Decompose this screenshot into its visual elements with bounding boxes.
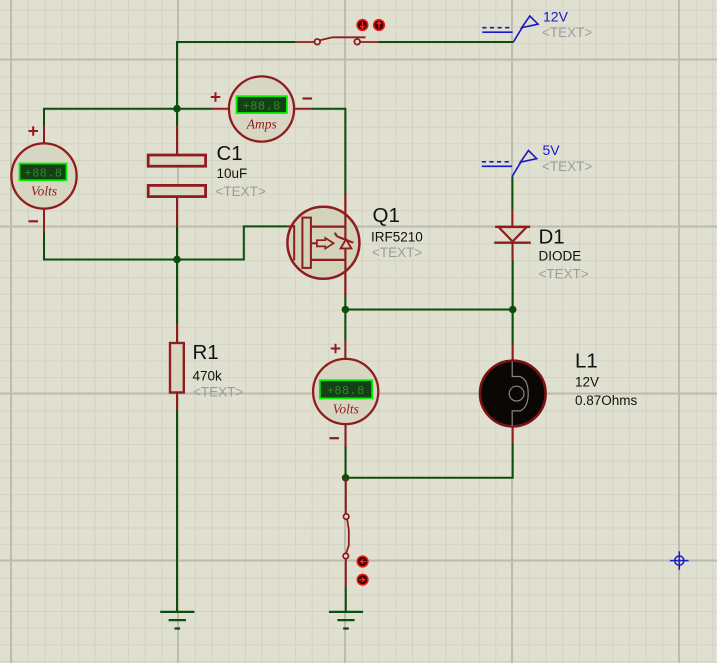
wire node A to voltmeter VM1 plus bbox=[44, 109, 177, 126]
node C junction dot bbox=[342, 306, 350, 314]
power terminal 5V bbox=[482, 151, 537, 177]
transistor Q1 MOSFET bbox=[287, 194, 359, 296]
node E junction dot bbox=[342, 474, 350, 482]
node D junction dot bbox=[509, 306, 517, 314]
wire voltmeter VM2 minus to node E bbox=[345, 446, 347, 478]
wire top rail from node A to switch bbox=[177, 42, 296, 109]
ground left bbox=[160, 612, 194, 629]
voltmeter VM2 bbox=[313, 340, 378, 448]
wire node D to lamp L1 bbox=[512, 310, 514, 344]
wire ammeter minus to MOSFET drain bbox=[312, 109, 345, 195]
switch SW1 toggle down button bbox=[357, 20, 368, 31]
svg-text:+88.8: +88.8 bbox=[327, 384, 365, 398]
svg-text:<TEXT>: <TEXT> bbox=[372, 245, 422, 260]
switch SW1 bbox=[295, 37, 379, 44]
diode D1 bbox=[494, 210, 531, 261]
svg-text:+88.8: +88.8 bbox=[243, 99, 281, 113]
origin marker bbox=[670, 551, 689, 570]
ammeter minus label bbox=[303, 97, 313, 99]
svg-text:0.87Ohms: 0.87Ohms bbox=[575, 393, 638, 408]
ammeter plus label bbox=[211, 92, 221, 101]
node A junction dot bbox=[173, 105, 181, 113]
voltmeter VM1 bbox=[11, 126, 76, 233]
wire node E to lamp bottom bbox=[346, 444, 513, 478]
wire node B to MOSFET gate bbox=[177, 226, 287, 259]
voltmeter VM2 minus label bbox=[330, 437, 340, 439]
svg-text:12V: 12V bbox=[575, 374, 599, 389]
switch SW2 toggle up button bbox=[357, 574, 368, 585]
svg-text:Amps: Amps bbox=[246, 116, 277, 131]
switch SW1 toggle up button bbox=[374, 20, 385, 31]
wire node C to node D bbox=[345, 309, 512, 311]
svg-text:<TEXT>: <TEXT> bbox=[542, 25, 592, 40]
wire R1 to ground bbox=[176, 410, 178, 612]
svg-text:Volts: Volts bbox=[31, 184, 57, 199]
svg-text:<TEXT>: <TEXT> bbox=[193, 384, 243, 399]
switch SW2 bbox=[343, 478, 349, 612]
wire node A to ammeter plus bbox=[177, 108, 212, 110]
svg-text:<TEXT>: <TEXT> bbox=[539, 267, 589, 282]
wire switch to 12V terminal bbox=[379, 41, 514, 43]
svg-text:470k: 470k bbox=[193, 369, 223, 384]
wire node C to voltmeter VM2 plus bbox=[344, 310, 346, 341]
wire MOSFET source to node C bbox=[344, 294, 346, 310]
svg-text:Q1: Q1 bbox=[373, 204, 400, 227]
svg-text:C1: C1 bbox=[217, 142, 243, 165]
svg-text:+88.8: +88.8 bbox=[24, 167, 62, 181]
svg-text:<TEXT>: <TEXT> bbox=[216, 184, 266, 199]
svg-text:L1: L1 bbox=[575, 350, 598, 373]
svg-text:IRF5210: IRF5210 bbox=[371, 230, 423, 245]
capacitor C1 bbox=[148, 109, 205, 226]
wire voltmeter VM1 minus to node B bbox=[44, 232, 177, 259]
wire C1 bottom to node B bbox=[176, 226, 178, 259]
ground right bbox=[329, 612, 363, 629]
wire 5V terminal to D1 anode bbox=[511, 176, 513, 210]
wire D1 cathode to node D bbox=[512, 260, 514, 309]
voltmeter VM2 plus label bbox=[331, 344, 341, 353]
power terminal 12V bbox=[482, 16, 538, 42]
ammeter AM1 bbox=[211, 76, 313, 141]
wire node B down to R1 bbox=[176, 260, 178, 324]
lamp L1 bbox=[480, 343, 546, 444]
svg-text:5V: 5V bbox=[543, 142, 561, 158]
resistor R1 bbox=[170, 323, 184, 411]
svg-text:12V: 12V bbox=[543, 8, 569, 24]
node B junction dot bbox=[173, 256, 181, 264]
svg-text:10uF: 10uF bbox=[217, 166, 248, 181]
svg-text:R1: R1 bbox=[193, 341, 219, 364]
svg-text:Volts: Volts bbox=[333, 401, 359, 416]
svg-text:DIODE: DIODE bbox=[539, 248, 582, 263]
svg-text:<TEXT>: <TEXT> bbox=[542, 159, 592, 174]
voltmeter VM1 minus label bbox=[29, 220, 39, 222]
switch SW2 toggle down button bbox=[357, 556, 368, 567]
voltmeter VM1 plus label bbox=[29, 126, 39, 135]
svg-text:D1: D1 bbox=[539, 226, 565, 249]
